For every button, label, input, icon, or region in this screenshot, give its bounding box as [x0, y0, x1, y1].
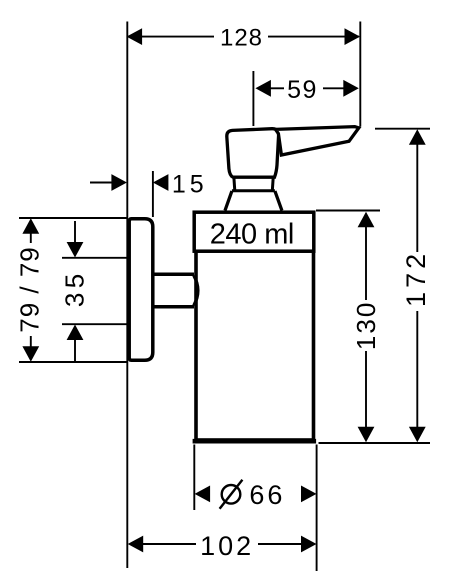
- dimension 35: [59, 221, 89, 362]
- dimension 128: [127, 25, 360, 52]
- wall plate: [129, 219, 153, 360]
- svg-text:240 ml: 240 ml: [210, 218, 294, 250]
- wire extension 79 top: [19, 217, 127, 219]
- dimension 172: [401, 129, 431, 442]
- dimension 102: [128, 531, 317, 561]
- svg-text:128: 128: [220, 25, 263, 52]
- wire extension plate front for 15: [152, 171, 154, 217]
- dimension 130: [351, 212, 381, 442]
- bottle bottom edge: [193, 439, 317, 444]
- wire extension bottom of 130/172: [319, 442, 431, 444]
- pump handle: [276, 127, 359, 155]
- wire extension 35 bottom: [62, 323, 130, 325]
- bottle lid with label: [194, 212, 314, 251]
- svg-text:59: 59: [287, 76, 318, 104]
- wire extension 172 top: [375, 128, 430, 130]
- wire wall line: [126, 22, 128, 569]
- dimension 15: [90, 170, 208, 198]
- dimension diameter 66: [195, 480, 317, 510]
- wire extension 35 top: [62, 257, 130, 259]
- svg-text:130: 130: [351, 301, 381, 350]
- dimension 79 / 79: [15, 218, 45, 362]
- arm top edge: [153, 273, 194, 277]
- wire extension bottle left bottom: [193, 445, 195, 511]
- wire extension 130 top: [316, 210, 380, 212]
- arm bottom edge: [153, 305, 194, 309]
- svg-text:102: 102: [200, 531, 254, 561]
- wire extension bottle right bottom: [316, 445, 318, 572]
- svg-text:15: 15: [172, 170, 208, 198]
- svg-text:172: 172: [401, 250, 431, 307]
- pump flare skirt: [225, 191, 282, 211]
- wire extension right of 128/59: [359, 22, 361, 127]
- wire extension left of 59: [252, 71, 254, 126]
- pump neck: [232, 178, 275, 192]
- svg-text:66: 66: [249, 480, 285, 510]
- svg-text:79 / 79: 79 / 79: [15, 246, 45, 333]
- pump cap: [227, 129, 279, 178]
- arm end bulge arc: [194, 276, 198, 306]
- svg-text:35: 35: [59, 269, 89, 307]
- dimension 59: [255, 76, 358, 104]
- bottle body: [196, 251, 314, 440]
- wire extension 79 bottom: [19, 361, 127, 363]
